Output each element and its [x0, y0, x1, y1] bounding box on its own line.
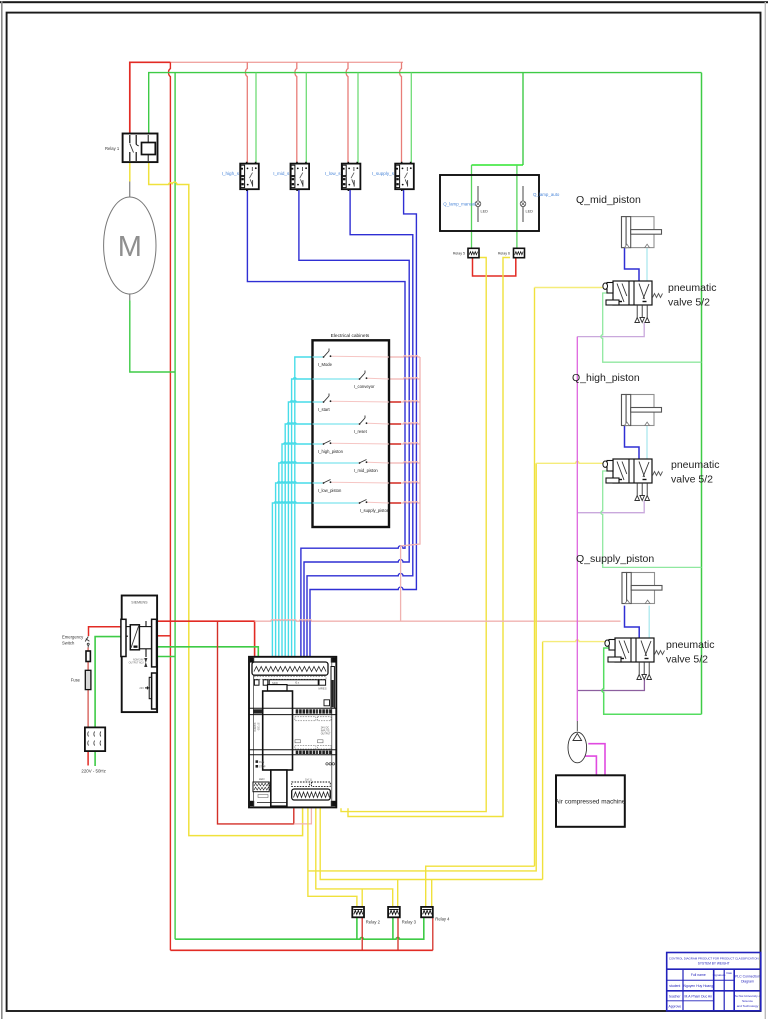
- svg-text:SIMATIC: SIMATIC: [253, 723, 256, 733]
- center module: [268, 685, 288, 691]
- wire yellow row to valve2: [308, 463, 536, 871]
- lamp Q_lamp_manual: [443, 186, 488, 222]
- svg-text:I_conveyor: I_conveyor: [354, 384, 375, 389]
- wire lavender valve2 exhaust to magenta bus: [577, 501, 644, 513]
- wire green motor bottom to left green vertical: [130, 301, 175, 373]
- switch I_low_piston: [313, 480, 390, 493]
- svg-text:valve 5/2: valve 5/2: [671, 474, 713, 486]
- wire red drop to limit switch 2: [295, 62, 297, 163]
- valve V1 pneumatic 5/2: [603, 281, 663, 323]
- svg-text:LED: LED: [259, 777, 266, 781]
- wire green main left vertical: [174, 73, 176, 940]
- wire pink cabinet row 3 right: [389, 401, 420, 402]
- switch I_high_piston: [313, 441, 390, 454]
- wire red cabinet row 5 stub: [389, 443, 401, 445]
- wire red relay bottom bus: [170, 949, 432, 951]
- wire pink cabinet row 2 right: [389, 378, 420, 379]
- wire cyan cabinet row 2 to PLC: [292, 378, 313, 666]
- wire red relay5-relay6 link: [473, 258, 516, 277]
- svg-text:PLC Connection: PLC Connection: [735, 975, 760, 979]
- PLC S7-200: [249, 657, 336, 808]
- limit switch LS4: [395, 162, 414, 191]
- wire red mains live vertical: [87, 647, 89, 727]
- wire pink cabinet row 8 right: [389, 502, 420, 503]
- wire yellow valve3 feed row: [543, 640, 610, 642]
- svg-text:Q_mid_piston: Q_mid_piston: [576, 194, 641, 206]
- wire pink PLC bottom stub: [294, 808, 312, 824]
- wire black motor bottom stub: [129, 294, 131, 301]
- svg-text:Relay 5: Relay 5: [453, 252, 465, 256]
- air pump: [568, 732, 587, 763]
- svg-text:Q_lamp_auto: Q_lamp_auto: [533, 192, 560, 197]
- wire green drop to limit switch 1: [255, 73, 257, 164]
- switch I_conveyor: [313, 371, 390, 389]
- wire palegreen valve1 return: [601, 293, 702, 362]
- svg-text:CONTROL DIAGRAM PRODUCT FOR PR: CONTROL DIAGRAM PRODUCT FOR PRODUCT CLAS…: [669, 957, 759, 961]
- limit switch LS2: [291, 162, 310, 191]
- relay K6 "Relay 6": [498, 248, 525, 257]
- svg-text:Air compressed machine: Air compressed machine: [555, 799, 626, 806]
- svg-text:I_high_s: I_high_s: [222, 171, 240, 176]
- wire blue limit switch 4 output: [310, 189, 416, 666]
- electrical cabinets box: [313, 333, 390, 527]
- wire blue cylinder2 to valve2: [625, 426, 640, 460]
- emergency switch S0: [62, 635, 89, 648]
- wire blue limit switch 1 output: [247, 189, 405, 666]
- relay K2 "Relay 2": [352, 907, 364, 917]
- wire green relay3 drop: [392, 917, 394, 939]
- svg-text:RUN: RUN: [259, 761, 264, 764]
- dashed strip row2: [254, 677, 326, 680]
- cylinder Q_mid_piston: [622, 217, 662, 248]
- bottom section: [271, 770, 287, 806]
- svg-text:SYSTEM BY WEIGHT: SYSTEM BY WEIGHT: [698, 962, 730, 966]
- svg-text:I_start: I_start: [318, 407, 330, 412]
- wire cyan cabinet row 7 to PLC: [276, 482, 313, 666]
- cylinder Q_supply_piston: [622, 573, 662, 604]
- wire yellow PLC to relay2: [308, 808, 357, 907]
- wire purple valve3 exhaust to magenta bus: [577, 680, 644, 691]
- wire green lamp manual drop to relay5: [471, 165, 473, 249]
- wire cyan cabinet row 3 to PLC: [288, 401, 312, 666]
- wire blue cylinder1 to valve1: [625, 248, 640, 281]
- wire red cabinet row 8 stub: [389, 502, 401, 504]
- wire paleblue cylinder3 right port: [648, 606, 650, 638]
- svg-text:220V - 50Hz: 220V - 50Hz: [81, 769, 105, 774]
- svg-text:I_reset: I_reset: [354, 429, 368, 434]
- svg-text:Nguyen Huy Hoang: Nguyen Huy Hoang: [684, 984, 714, 988]
- wire yellow PLC to row cascade (valve3): [320, 808, 542, 879]
- fuse F1: [71, 670, 91, 689]
- mid band 1: [249, 707, 336, 709]
- svg-text:I0.x: I0.x: [295, 680, 300, 684]
- wire green lamp auto drop to relay6: [516, 165, 518, 249]
- wire yellow relay1 left stub: [129, 162, 131, 181]
- wire cyan cabinet row 4 to PLC: [285, 423, 312, 666]
- wire magenta pump to air box right: [588, 744, 605, 776]
- relay K5 "Relay 5": [453, 248, 479, 257]
- wire yellow PLC to relay3: [316, 808, 393, 907]
- svg-text:SIEMENS: SIEMENS: [131, 601, 148, 605]
- wire red power supply second output: [157, 635, 170, 637]
- wire yellow relay6 output long vertical: [348, 258, 510, 817]
- wire red cabinet row 7 stub: [389, 482, 401, 484]
- switch I_start: [313, 394, 390, 412]
- wire green drop to limit switch 3: [357, 73, 359, 164]
- svg-text:I_supply_s: I_supply_s: [372, 171, 395, 176]
- right slot: [331, 667, 334, 709]
- wire lavender valve1 exhaust to magenta bus: [577, 323, 644, 337]
- svg-text:Emergency: Emergency: [62, 635, 84, 640]
- svg-text:and Technology: and Technology: [737, 1004, 759, 1008]
- limit switch LS3: [342, 162, 361, 191]
- wire pink cabinet row 1 right: [389, 356, 420, 357]
- svg-text:Fuse: Fuse: [71, 678, 81, 683]
- svg-text:I_mid_s: I_mid_s: [273, 171, 290, 176]
- wire red cabinet row 4 stub: [389, 423, 401, 425]
- wire pink cabinet row 6 right: [389, 462, 420, 463]
- svg-text:I_Mode: I_Mode: [318, 362, 333, 367]
- wire cyan cabinet row 8 to PLC: [272, 502, 312, 666]
- limit switch LS1: [240, 162, 259, 191]
- svg-text:OUTPUT ADJ: OUTPUT ADJ: [129, 662, 145, 665]
- wire magenta air supply vertical: [576, 337, 578, 721]
- wire palegreen valve2 return: [601, 471, 702, 567]
- svg-text:pneumatic: pneumatic: [666, 639, 714, 651]
- svg-text:LED: LED: [481, 210, 489, 214]
- wire yellow row to relay4: [426, 866, 535, 907]
- lamp Q_lamp_auto: [520, 186, 560, 222]
- relay K4 "Relay 4": [421, 907, 433, 917]
- svg-text:STOP: STOP: [259, 766, 266, 769]
- motor M: [104, 197, 156, 294]
- wire magenta pump to air box left: [585, 756, 597, 775]
- svg-text:valve 5/2: valve 5/2: [668, 297, 710, 309]
- wire yellow relay4 second stub: [431, 880, 433, 907]
- wire pink 24V bus continuation: [255, 620, 621, 622]
- wire red top bus pale segment: [170, 61, 403, 63]
- wire yellow valve1 feed row: [535, 287, 611, 289]
- wire green drop to limit switch 2: [305, 73, 307, 164]
- svg-text:I_high_piston: I_high_piston: [318, 449, 344, 454]
- wire red cabinet row 3 stub: [389, 401, 401, 403]
- svg-text:24V: 24V: [139, 686, 144, 690]
- wire cyan cabinet row 5 to PLC: [282, 443, 313, 666]
- wire red mains below plug: [87, 751, 89, 765]
- svg-text:I_low_s: I_low_s: [325, 171, 341, 176]
- wire paleblue cylinder1 right port: [646, 248, 648, 281]
- svg-text:Electrical cabinets: Electrical cabinets: [331, 333, 370, 339]
- svg-text:M: M: [118, 231, 142, 263]
- wire palegreen valve3 return: [602, 648, 702, 714]
- svg-text:Relay 3: Relay 3: [402, 920, 417, 925]
- air compressed machine box: [555, 775, 626, 827]
- wire blue limit switch 3 output: [307, 189, 413, 666]
- wire blue limit switch 2 output: [299, 189, 409, 666]
- svg-text:student: student: [669, 984, 680, 988]
- wire pink cabinet row 4 right: [389, 423, 420, 424]
- svg-text:Relay 1: Relay 1: [105, 146, 120, 151]
- wire red PLC output return drop: [218, 621, 294, 824]
- valve V2 pneumatic 5/2: [603, 459, 663, 501]
- svg-text:valve 5/2: valve 5/2: [666, 654, 708, 666]
- svg-text:I_mid_piston: I_mid_piston: [354, 468, 378, 473]
- svg-text:Relay 6: Relay 6: [498, 252, 510, 256]
- wire paleblue cylinder2 right port: [646, 426, 648, 460]
- svg-text:Diagram: Diagram: [741, 980, 754, 984]
- cylinder Q_high_piston: [622, 395, 662, 426]
- wire green relay bottom bus: [175, 917, 424, 939]
- power supply PSU: [121, 596, 157, 713]
- wire red relay4 drop: [432, 917, 434, 950]
- wire red relay2 drop: [361, 917, 363, 950]
- switch I_supply_piston: [313, 500, 390, 513]
- wire red drop to limit switch 1: [245, 62, 247, 163]
- wire yellow valve3 feed vertical: [542, 642, 544, 880]
- wire yellow relay5 output long vertical: [341, 258, 486, 812]
- wire cyan cabinet row 1 to PLC: [295, 357, 313, 666]
- wire pink cabinet row 7 right: [389, 482, 420, 483]
- wire cyan cabinet row 6 to PLC: [279, 462, 313, 666]
- breaker element: [86, 651, 90, 662]
- wire black pump top stub: [576, 721, 578, 731]
- svg-text:Switch: Switch: [62, 641, 75, 646]
- svg-text:LED: LED: [526, 210, 534, 214]
- switch I_reset: [313, 416, 390, 434]
- wire blue cylinder3 to valve3: [625, 606, 640, 638]
- wire green drop to lamp box: [522, 73, 524, 165]
- svg-text:I_supply_piston: I_supply_piston: [360, 508, 390, 513]
- switch I_mid_piston: [313, 460, 390, 473]
- wire green power supply second output: [157, 656, 175, 658]
- svg-text:MRES: MRES: [319, 687, 327, 691]
- wire yellow relay3 second stub: [397, 880, 399, 907]
- svg-text:Q_supply_piston: Q_supply_piston: [576, 553, 654, 565]
- svg-text:Science: Science: [742, 999, 753, 1003]
- switch I_Mode: [313, 349, 390, 367]
- svg-text:Relay 4: Relay 4: [435, 917, 450, 922]
- wire red top bus bright segment: [130, 62, 171, 133]
- svg-text:pneumatic: pneumatic: [671, 459, 719, 471]
- wire red power supply to PLC L+: [157, 621, 255, 666]
- mains plug 220V: [81, 727, 105, 773]
- wire green mains below plug: [94, 751, 96, 766]
- mid band 2: [249, 749, 336, 751]
- wire yellow relay2 second stub: [361, 889, 363, 907]
- valve V3 pneumatic 5/2: [605, 638, 665, 680]
- wire green right big vertical: [701, 73, 703, 715]
- svg-text:Relay 2: Relay 2: [366, 920, 381, 925]
- wire green mains neutral: [95, 637, 122, 728]
- svg-text:Ha Noi University of: Ha Noi University of: [734, 994, 761, 998]
- wire red drop to limit switch 4: [400, 62, 402, 163]
- svg-text:Full name: Full name: [691, 973, 706, 977]
- wire green top bus: [149, 73, 702, 134]
- wire green drop to limit switch 4: [410, 73, 412, 164]
- wire yellow relay1 to PLC long path: [149, 162, 303, 836]
- svg-text:S7-200: S7-200: [257, 723, 260, 731]
- wire red relay3 drop: [397, 917, 399, 950]
- wire red main left vertical (top bus to bottom bus): [169, 62, 171, 950]
- wire pink cabinet common vertical: [401, 357, 420, 621]
- wire yellow valve2 feed row: [536, 461, 610, 463]
- wire green lamp box top link: [472, 164, 524, 166]
- svg-text:1M 1L: 1M 1L: [305, 778, 313, 782]
- wire red drop to limit switch 3: [346, 62, 348, 163]
- svg-text:Approve: Approve: [668, 1005, 681, 1009]
- wire green power supply to PLC M: [157, 647, 258, 666]
- wire black relay1 to motor lead: [129, 182, 131, 198]
- svg-text:I_low_piston: I_low_piston: [318, 488, 342, 493]
- wire yellow valve1 feed vertical: [534, 288, 536, 867]
- svg-text:pneumatic: pneumatic: [668, 282, 716, 294]
- svg-text:OUTPUT: OUTPUT: [321, 733, 331, 736]
- svg-text:Date: Date: [726, 971, 732, 975]
- svg-text:Q_high_piston: Q_high_piston: [572, 372, 640, 384]
- svg-text:Q_lamp_manual: Q_lamp_manual: [443, 202, 475, 207]
- svg-text:teacher: teacher: [669, 995, 681, 999]
- svg-text:M.A Pham Duc An: M.A Pham Duc An: [685, 995, 713, 999]
- svg-text:Signature: Signature: [713, 973, 726, 977]
- wire pink cabinet row 5 right: [389, 443, 420, 444]
- top terminal strip: [252, 662, 328, 675]
- wire red emergency switch to power supply: [89, 627, 122, 636]
- relay K3 "Relay 3": [388, 907, 400, 917]
- lamp indicator box: [440, 175, 539, 231]
- relay K1 "Relay 1": [105, 134, 158, 163]
- title block: [667, 953, 761, 1011]
